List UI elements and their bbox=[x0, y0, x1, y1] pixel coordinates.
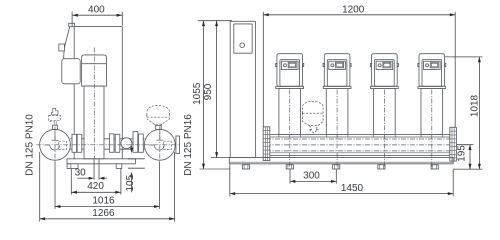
svg-text:1055: 1055 bbox=[192, 82, 203, 105]
svg-text:DN 125 PN16: DN 125 PN16 bbox=[183, 114, 194, 176]
svg-text:DN 125 PN10: DN 125 PN10 bbox=[24, 114, 35, 176]
svg-text:300: 300 bbox=[303, 170, 320, 181]
svg-text:1018: 1018 bbox=[470, 94, 481, 117]
svg-text:950: 950 bbox=[203, 83, 214, 100]
svg-text:400: 400 bbox=[88, 5, 105, 16]
svg-text:105: 105 bbox=[125, 174, 136, 191]
svg-text:1450: 1450 bbox=[341, 183, 364, 194]
svg-text:1200: 1200 bbox=[342, 4, 365, 15]
svg-text:195: 195 bbox=[457, 145, 468, 162]
svg-text:420: 420 bbox=[87, 181, 104, 192]
svg-text:30: 30 bbox=[75, 168, 87, 179]
svg-text:1016: 1016 bbox=[92, 196, 115, 207]
svg-text:1266: 1266 bbox=[92, 208, 115, 219]
